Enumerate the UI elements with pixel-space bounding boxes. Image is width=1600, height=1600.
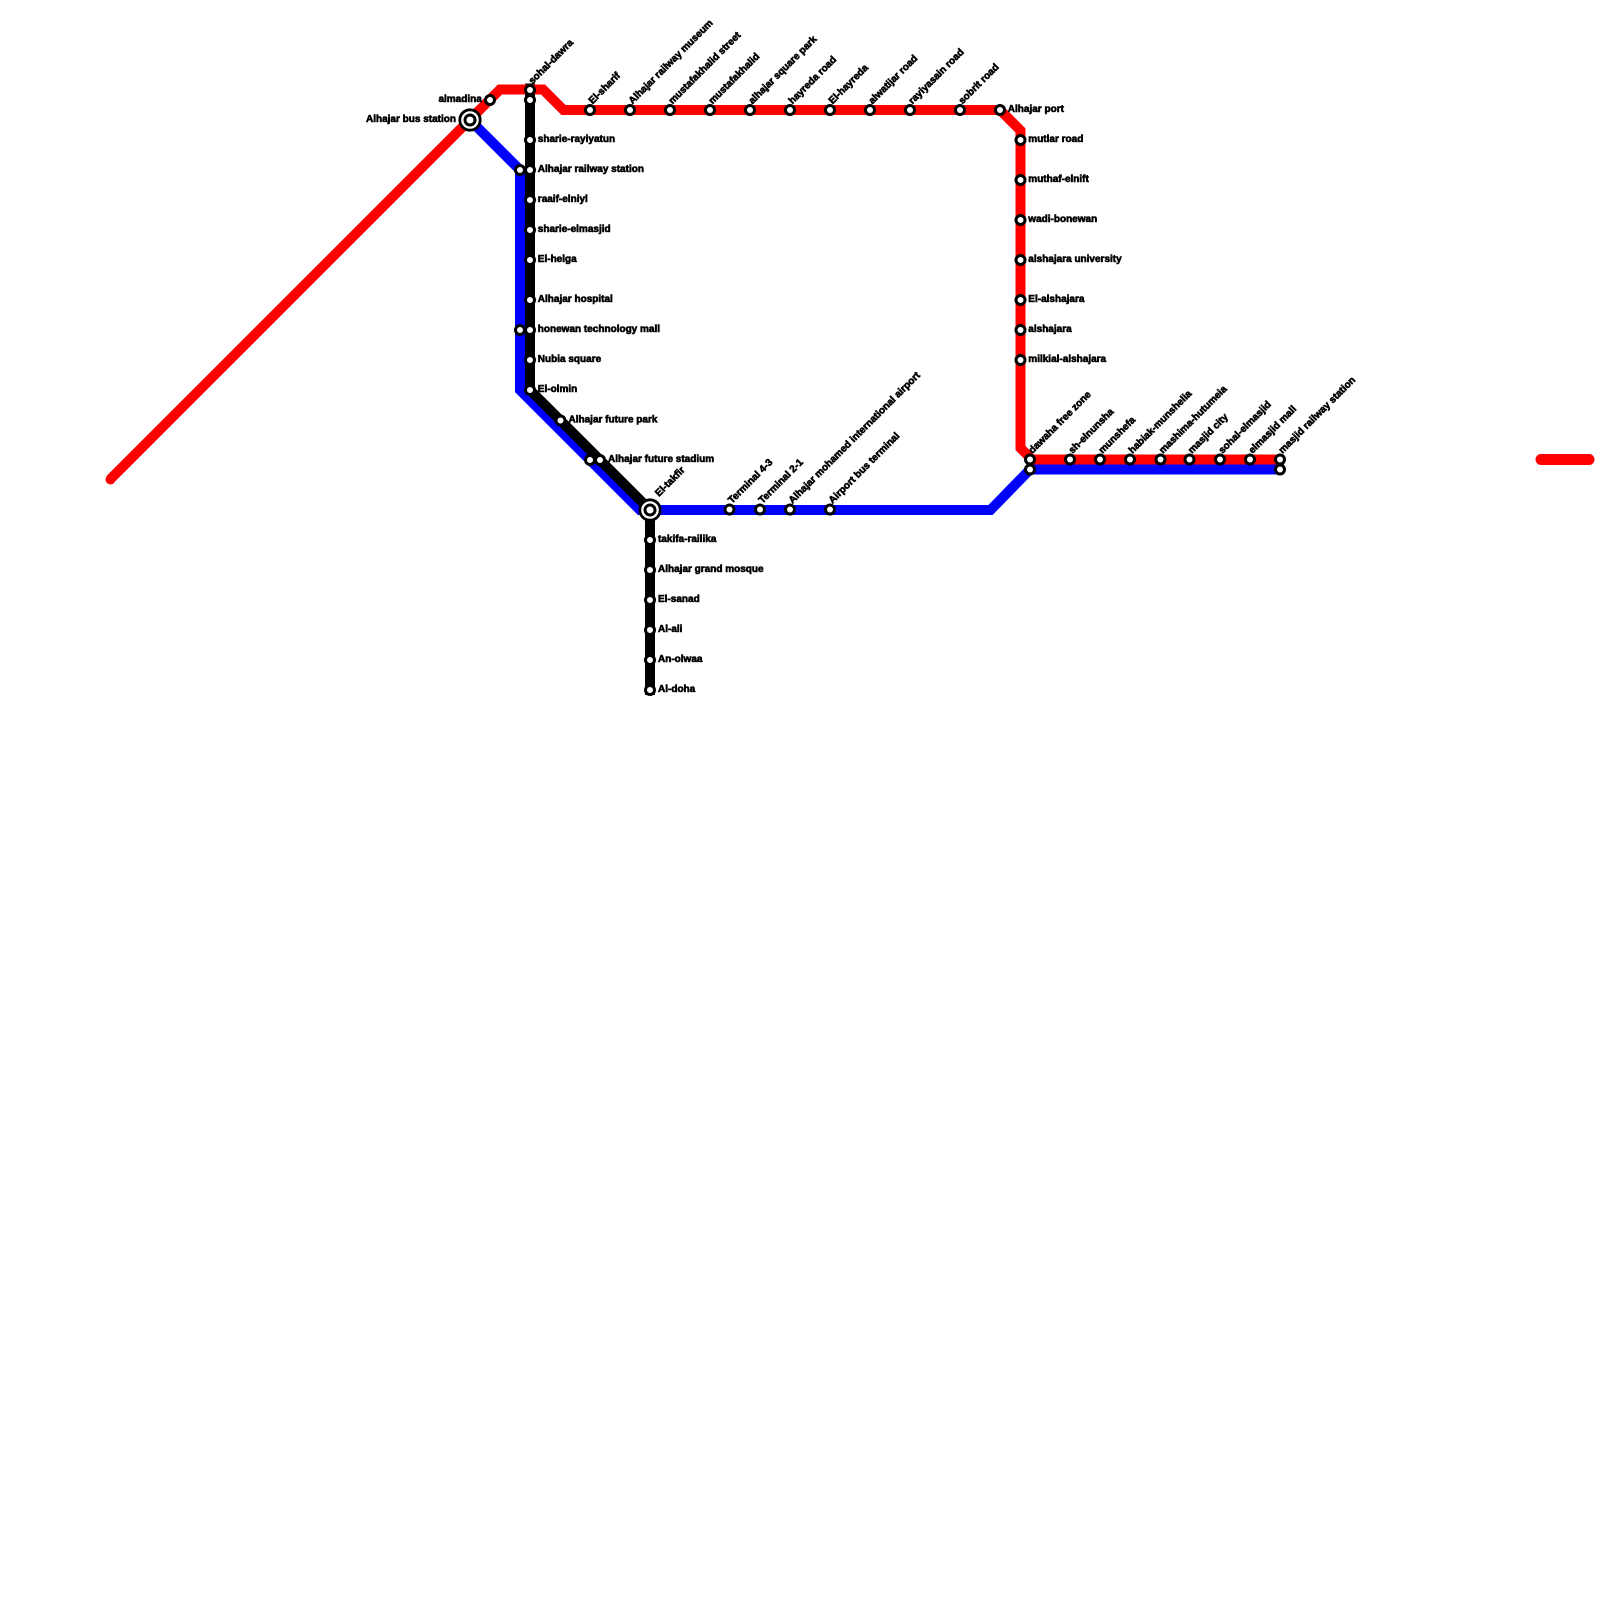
node Alhajar grand mosque [646,566,655,575]
node munshefa [1096,455,1105,464]
node Alhajar mohamed international airport [786,505,795,514]
blue line [470,120,1284,510]
interchange El-takfir [640,500,660,520]
svg-text:El-olmin: El-olmin [538,384,577,395]
svg-text:almadina: almadina [438,94,482,105]
node hayreda road [786,106,795,115]
node An-olwaa [646,656,655,665]
node El-sanad [646,596,655,605]
node El-olmin [526,386,535,395]
node Alhajar future stadium (blue) [586,456,595,465]
node rayiyasain road [906,106,915,115]
node alshajara [1016,326,1025,335]
svg-text:El-helga: El-helga [538,254,577,265]
svg-text:Alhajar grand mosque: Alhajar grand mosque [658,564,764,575]
node honewan technology mall (black) [526,326,535,335]
labels: right-aligned [366,94,482,125]
svg-text:alshajara: alshajara [1028,324,1072,335]
svg-text:Al-doha: Al-doha [658,684,696,695]
node mashima-hutumeia [1156,455,1165,464]
node sohal-elmasjid [1216,455,1225,464]
node mustafakhalid [706,106,715,115]
red line end cap [106,475,116,485]
node muthaf-elnift [1016,176,1025,185]
node Terminal 2-1 [756,505,765,514]
node Alhajar hospital [526,296,535,305]
svg-text:mutlar road: mutlar road [1028,134,1083,145]
node mustafakhalid street [666,106,675,115]
svg-text:Alhajar future stadium: Alhajar future stadium [608,454,714,465]
node sharie-rayiyatun [526,136,535,145]
node sobrit road [956,106,965,115]
svg-text:Alhajar railway station: Alhajar railway station [538,164,644,175]
svg-text:raaif-elniyl: raaif-elniyl [538,194,588,205]
svg-text:milkial-alshajara: milkial-alshajara [1028,354,1106,365]
node wadi-bonewan [1016,216,1025,225]
node masjid city [1185,455,1194,464]
node Alhajar future stadium (black) [596,456,605,465]
node sharie-elmasjid [526,226,535,235]
node Alhajar railway station (blue) [516,166,525,175]
node sohal-dawra (black) [526,96,535,105]
node Terminal 4-3 [725,505,734,514]
labels: rotated 45deg [527,18,1358,506]
interchange Alhajar bus station [460,110,660,520]
red line [110,90,1284,480]
node El-helga [526,256,535,265]
svg-text:El-sanad: El-sanad [658,594,700,605]
node alshajara university [1016,256,1025,265]
node masjid railway station (red) [1276,455,1285,464]
stations: small circles [486,86,1285,695]
svg-text:muthaf-elnift: muthaf-elnift [1028,174,1089,185]
node masjid railway station (blue) [1276,465,1285,474]
node mutlar road [1016,136,1025,145]
svg-text:An-olwaa: An-olwaa [658,654,703,665]
node raaif-elniyl [526,196,535,205]
svg-text:honewan technology mall: honewan technology mall [538,324,660,335]
node almadina [486,96,495,105]
node dawaha free zone (red) [1026,455,1035,464]
node habiak-munshelia [1126,455,1135,464]
svg-text:Alhajar hospital: Alhajar hospital [538,294,613,305]
svg-text:wadi-bonewan: wadi-bonewan [1027,214,1097,225]
node Alhajar future park [556,416,565,425]
svg-text:Alhajar port: Alhajar port [1008,104,1065,115]
svg-text:takifa-railika: takifa-railika [658,534,717,545]
svg-text:Al-ali: Al-ali [658,624,683,635]
svg-text:El-alshajara: El-alshajara [1028,294,1085,305]
svg-text:Alhajar bus station: Alhajar bus station [366,114,456,125]
svg-text:sharie-rayiyatun: sharie-rayiyatun [538,134,615,145]
node Alhajar railway museum [626,106,635,115]
svg-text:sharie-elmasjid: sharie-elmasjid [538,224,611,235]
node Al-ali [646,626,655,635]
node El-hayreda [826,106,835,115]
node Airport bus terminal [826,505,835,514]
node Nubia square [526,356,535,365]
node sohal-dawra (red) [526,86,535,95]
labels: horizontal left-aligned [538,104,1122,695]
node honewan technology mall (blue) [516,326,525,335]
node takifa-railika [646,536,655,545]
node alwatijar road [866,106,875,115]
node milkial-alshajara [1016,356,1025,365]
node Al-doha [646,686,655,695]
legend red dash [1541,454,1589,465]
black line [530,84,650,696]
node Alhajar railway station (black) [526,166,535,175]
svg-text:alshajara university: alshajara university [1028,254,1122,265]
node alhajar square park [746,106,755,115]
node sh-elnunsha [1066,455,1075,464]
svg-text:Alhajar future park: Alhajar future park [569,415,658,426]
node El-sharif [586,106,595,115]
node El-alshajara [1016,296,1025,305]
node dawaha free zone (blue) [1026,465,1035,474]
node elmasjid mall [1246,455,1255,464]
svg-text:Nubia square: Nubia square [538,354,602,365]
node Alhajar port [996,106,1005,115]
